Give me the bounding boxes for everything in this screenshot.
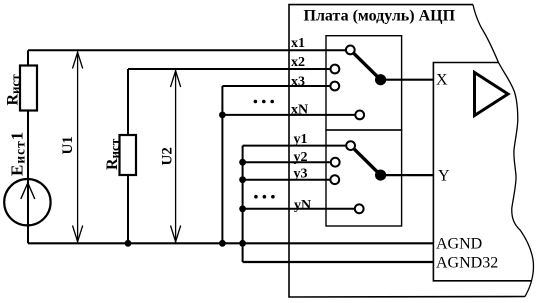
switch common node X <box>375 74 386 85</box>
wire X output <box>381 79 434 81</box>
svg-text:x3: x3 <box>291 75 305 90</box>
wire y3 <box>243 179 331 181</box>
mux box (x section) <box>326 36 402 130</box>
wire x1 (top rail) <box>28 49 346 51</box>
resistor R2 Rист <box>120 135 137 175</box>
junction y-bus/yN <box>239 205 246 212</box>
contact x3 <box>330 82 339 91</box>
wire R1 to source <box>27 111 29 244</box>
junction y-bus/rail <box>239 240 246 247</box>
ellipsis dots y row <box>254 195 258 199</box>
ellipsis dots x row <box>254 100 258 104</box>
junction y-bus/y3 <box>239 176 246 183</box>
svg-text:U1: U1 <box>60 136 76 154</box>
y-bus vertical wire <box>242 146 244 262</box>
wire yN <box>243 208 355 210</box>
AGND32 wire <box>243 261 434 263</box>
svg-text:U2: U2 <box>159 147 175 165</box>
wire x2 rail <box>128 68 331 70</box>
switch common node Y <box>375 170 386 181</box>
wire y2 <box>243 161 331 163</box>
svg-text:xN: xN <box>291 103 308 118</box>
svg-text:Y: Y <box>438 168 450 185</box>
wire Y output <box>381 174 434 176</box>
source E1 circle Eист1 <box>4 179 50 225</box>
svg-text:yN: yN <box>294 198 311 213</box>
wire xN <box>222 114 355 116</box>
svg-text:y3: y3 <box>294 167 308 182</box>
wire branch 2 vertical <box>127 69 129 136</box>
contact y2 <box>331 158 340 167</box>
U2 measuring arrow <box>175 70 177 242</box>
resistor R1 Rист <box>20 66 37 111</box>
source arrow <box>21 183 35 199</box>
board outline Плата (модуль) АЦП <box>289 5 525 297</box>
switch arm Y <box>354 149 378 173</box>
board torn right edge <box>473 5 533 297</box>
U1 measuring arrow <box>77 52 79 243</box>
x-bus vertical wire <box>221 86 223 243</box>
svg-text:y1: y1 <box>294 132 308 147</box>
svg-text:AGND32: AGND32 <box>436 255 498 272</box>
contact xN <box>355 111 364 120</box>
mux box (y section) <box>326 130 402 226</box>
svg-text:x1: x1 <box>291 36 305 51</box>
svg-text:AGND: AGND <box>436 235 482 252</box>
op-amp buffer triangle <box>475 73 509 116</box>
svg-text:Плата (модуль) АЦП: Плата (модуль) АЦП <box>304 8 456 25</box>
wire left source branch <box>27 50 29 66</box>
svg-text:y2: y2 <box>294 150 308 165</box>
svg-text:x2: x2 <box>291 55 305 70</box>
contact x1 <box>346 46 355 55</box>
contact y1 <box>346 141 355 150</box>
wire y1 <box>243 145 347 147</box>
wire x3 <box>222 85 330 87</box>
switch arm X <box>354 53 379 77</box>
ADC chip box <box>433 63 531 281</box>
junction x-bus/xN <box>219 112 226 119</box>
svg-text:Rист: Rист <box>104 138 122 170</box>
contact x2 <box>331 65 340 74</box>
junction branch2/rail <box>125 240 132 247</box>
junction x-bus/rail <box>219 240 226 247</box>
svg-text:X: X <box>436 72 448 89</box>
contact yN <box>355 204 364 213</box>
contact y3 <box>330 175 339 184</box>
junction y-bus/y2 <box>239 159 246 166</box>
svg-text:Rист: Rист <box>5 74 23 106</box>
wire R2 to bottom rail <box>127 175 129 243</box>
bottom rail AGND wire <box>28 242 433 244</box>
